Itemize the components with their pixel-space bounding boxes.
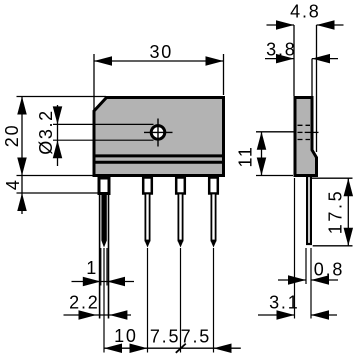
pin 2 shoulder (143, 178, 152, 194)
dimension 4 outside arrow (17, 193, 27, 211)
pin3 center extension (180, 248, 182, 353)
dimension 3.1 right segment (311, 314, 337, 316)
pin 3 narrow lead (178, 194, 182, 241)
groove line lower (93, 161, 225, 164)
dimension 4.8 right segment (317, 24, 344, 26)
dimension 3.1 right arrow (311, 310, 329, 320)
dimension 10 right arrow (130, 343, 148, 353)
dimension 0.8 right segment (311, 279, 338, 281)
dia 3.2 dimension line (57, 105, 59, 166)
dimension 3.8 left segment (265, 58, 294, 60)
pin1 lead-right extension (106, 248, 108, 286)
dia 3.2 lower arrow (53, 140, 63, 158)
dimension 11 top arrow (257, 132, 267, 150)
pin4 center extension (213, 248, 215, 353)
bottom chain dimension line (104, 347, 241, 349)
pin 2 tip taper (145, 241, 151, 248)
dimension 2.2 left arrow (79, 310, 97, 320)
dimension 30 left arrow (94, 56, 112, 66)
side view pin (307, 176, 311, 244)
pin 3 tip taper (178, 241, 184, 248)
dimension 0.8 left arrow (288, 275, 306, 285)
svg-text:30: 30 (149, 42, 173, 62)
dimension 4.8 right arrow (317, 20, 335, 30)
pin1 shoulder-right extension (108, 195, 110, 319)
svg-text:4.8: 4.8 (290, 2, 320, 22)
hole crosshair vertical (157, 119, 159, 147)
svg-text:7.5: 7.5 (181, 327, 211, 347)
dimension 20 top arrow (17, 97, 27, 115)
dimension 3.8 right segment (312, 58, 338, 60)
pin 1 tip taper (101, 241, 106, 248)
hole top tangent leader (53, 123, 154, 125)
dimension 20 bottom arrow (17, 158, 27, 176)
dimension 20 top extension (17, 96, 107, 98)
svg-text:4: 4 (3, 178, 23, 190)
hole bottom tangent leader (53, 139, 154, 141)
pin 1 narrow lead (101, 194, 106, 241)
svg-text:17.5: 17.5 (325, 189, 345, 234)
dimension 1 left arrow (83, 277, 101, 287)
dimension 4.8 left arrow (276, 20, 294, 30)
pin 1 shoulder (99, 178, 109, 194)
dimension 17.5 bottom extension (313, 245, 353, 247)
svg-text:0.8: 0.8 (314, 260, 344, 280)
dimension 2.2 right arrow (109, 310, 127, 320)
groove line upper (93, 154, 225, 157)
hidden hole bottom dashed line (298, 139, 311, 141)
svg-text:11: 11 (236, 145, 256, 167)
dimension 11 bottom extension (256, 175, 293, 177)
front view body outline (94, 98, 224, 176)
dimension 30 right arrow (206, 56, 224, 66)
svg-text:2.2: 2.2 (69, 293, 99, 313)
dimension 17.5 bottom arrow (344, 228, 354, 246)
side view body outline (295, 98, 317, 176)
dimension 0.8 right arrow (311, 275, 329, 285)
svg-text:20: 20 (2, 124, 22, 148)
dimension 30 right extension (223, 54, 225, 95)
dimension 17.5 line (347, 178, 349, 246)
hole centerline dash inside (298, 131, 303, 133)
dimension 0.8 left segment (278, 279, 306, 281)
dimension 3.8 right extension (311, 59, 313, 96)
pin1 center extension (103, 248, 105, 353)
dimension 20 line (21, 97, 23, 215)
dimension 30 left extension (93, 54, 95, 110)
dimension 11 top extension (256, 131, 295, 133)
svg-text:1: 1 (86, 258, 98, 278)
dimension 4.8 right extension (316, 25, 318, 152)
dimension 30 line (94, 60, 224, 62)
dimension 3.1 left arrow (277, 310, 295, 320)
dimension 4.8 left extension (293, 25, 295, 96)
dimension 3.1 left segment (258, 314, 295, 316)
svg-text:10: 10 (114, 326, 138, 346)
side pin right edge extension (310, 248, 312, 319)
dimension 4 lower extension (17, 192, 111, 194)
dimension 7.5 outside arrow (214, 343, 232, 353)
pin 4 shoulder (209, 178, 218, 194)
svg-text:7.5: 7.5 (150, 327, 180, 347)
side pin left edge extension (305, 248, 307, 284)
pin1 shoulder-left extension (99, 195, 101, 319)
dimension 4 upper extension (17, 175, 93, 177)
dimension 11 line (261, 132, 263, 176)
side body left edge extension (294, 178, 296, 319)
dimension 17.5 top extension (312, 177, 353, 179)
dimension 1 right arrow (107, 277, 125, 287)
dimension 2.2 line (64, 314, 132, 316)
dia 3.2 upper arrow (53, 106, 63, 124)
dimension 11 bottom arrow (257, 158, 267, 176)
dimension 10 left arrow (104, 343, 122, 353)
svg-text:3.8: 3.8 (266, 40, 296, 60)
hole centerline right segment (305, 131, 319, 133)
hidden hole top dashed line (298, 124, 311, 126)
svg-text:3.1: 3.1 (269, 293, 299, 313)
dimension 17.5 top arrow (344, 178, 354, 196)
slash tick at pin3 (176, 344, 186, 353)
dimension 3.8 right arrow (312, 54, 330, 64)
pin 3 shoulder (176, 178, 185, 194)
hole crosshair horizontal (144, 131, 173, 133)
dimension 4.8 left segment (267, 24, 295, 26)
pin2 center extension (147, 248, 149, 353)
dimension 1 line (72, 281, 135, 283)
svg-text:Ø3.2: Ø3.2 (36, 109, 56, 154)
dimension 3.8 left arrow (276, 54, 294, 64)
pin1 lead-left extension (100, 248, 102, 286)
pin 4 tip taper (211, 241, 217, 248)
pin 4 narrow lead (211, 194, 215, 241)
mounting hole ring (151, 126, 165, 140)
pin 2 narrow lead (145, 194, 149, 241)
